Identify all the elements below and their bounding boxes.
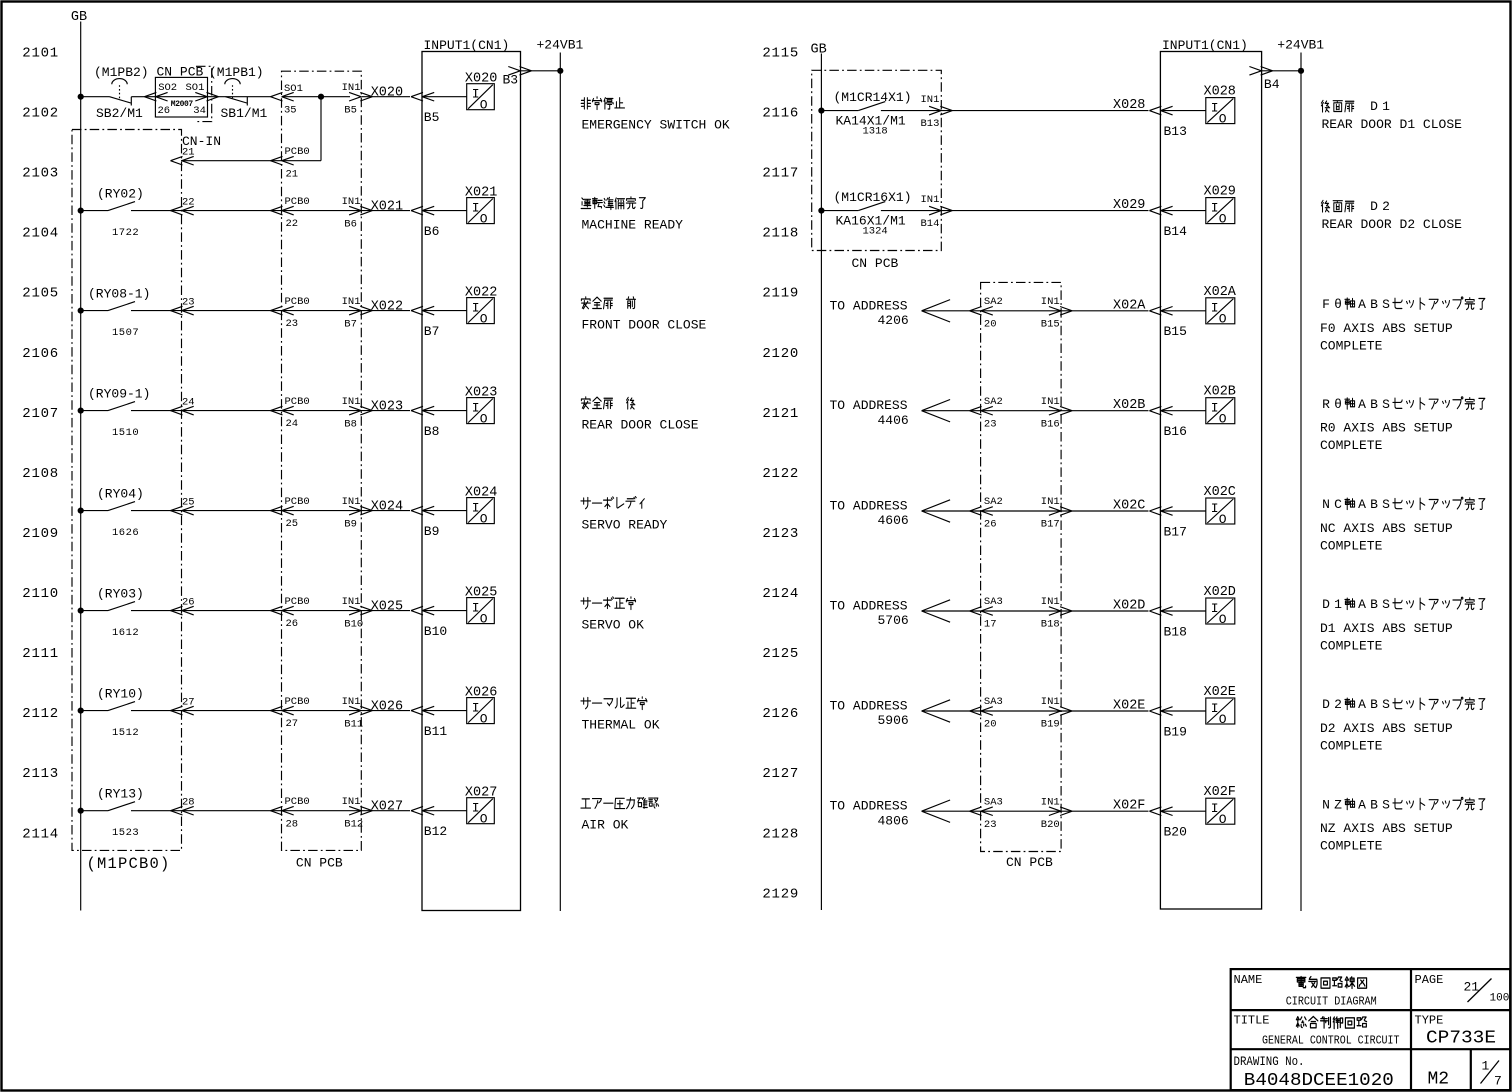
wire into I/O X024 bbox=[422, 510, 467, 512]
wire SB1 to SO1 boundary bbox=[219, 96, 271, 98]
connector IN1/B11 chevrons bbox=[349, 706, 372, 715]
connector SO1/35 chevrons at PCB boundary bbox=[271, 92, 294, 101]
wire rung X02D with arrow bbox=[922, 600, 1149, 622]
description label NC AXIS ABS SETUP (jp) bbox=[1322, 497, 1485, 512]
svg-text:I: I bbox=[472, 500, 480, 515]
svg-text:TITLE: TITLE bbox=[1234, 1013, 1270, 1027]
wire rung X021 to INPUT1 bbox=[131, 210, 410, 212]
svg-text:26: 26 bbox=[158, 105, 171, 117]
svg-text:TO ADDRESS: TO ADDRESS bbox=[830, 599, 908, 614]
wire into I/O X021 bbox=[422, 210, 467, 212]
connector IN1/B5 chevrons bbox=[349, 92, 372, 101]
svg-text:X025: X025 bbox=[371, 600, 403, 615]
description label MACHINE READY (jp) bbox=[581, 197, 645, 210]
switch SB2/M1 NC contact bbox=[110, 97, 132, 106]
svg-text:B8: B8 bbox=[424, 424, 440, 439]
svg-text:D: D bbox=[1370, 199, 1378, 214]
wire rung X022 to INPUT1 bbox=[131, 310, 410, 312]
svg-text:5706: 5706 bbox=[878, 613, 909, 628]
relay contact (RY10) bbox=[108, 702, 135, 711]
svg-text:O: O bbox=[1219, 111, 1227, 126]
connector SA3/17 chevrons bbox=[970, 607, 993, 616]
svg-text:B: B bbox=[1370, 497, 1378, 512]
connector INPUT1 B9 chevrons bbox=[411, 506, 434, 515]
svg-text:IN1: IN1 bbox=[342, 696, 361, 708]
svg-text:IN1: IN1 bbox=[342, 596, 361, 608]
svg-text:TO ADDRESS: TO ADDRESS bbox=[830, 398, 908, 413]
description label REAR DOOR D2 CLOSE (jp) bbox=[1321, 199, 1390, 214]
svg-text:IN1: IN1 bbox=[342, 82, 361, 94]
svg-text:2114: 2114 bbox=[22, 826, 59, 842]
svg-text:S: S bbox=[1382, 797, 1390, 812]
svg-text:X026: X026 bbox=[465, 686, 497, 701]
svg-text:1510: 1510 bbox=[112, 427, 139, 439]
relay contact (RY02) bbox=[108, 202, 135, 211]
description label F0 AXIS ABS SETUP (jp) bbox=[1322, 297, 1485, 312]
relay contact (RY09-1) bbox=[108, 402, 135, 411]
wire rung X02F with arrow bbox=[922, 800, 1149, 822]
node junction GB rung X020 bbox=[78, 94, 84, 100]
svg-text:X02B: X02B bbox=[1204, 385, 1236, 400]
svg-text:X02C: X02C bbox=[1204, 485, 1236, 500]
connector PCB0/21 chevrons bbox=[271, 156, 294, 165]
svg-text:IN1: IN1 bbox=[342, 296, 361, 308]
svg-text:AIR OK: AIR OK bbox=[582, 818, 629, 833]
svg-text:A: A bbox=[1358, 597, 1366, 612]
svg-text:5906: 5906 bbox=[878, 713, 909, 728]
svg-text:SB1/M1: SB1/M1 bbox=[221, 106, 268, 121]
svg-text:B8: B8 bbox=[344, 418, 357, 430]
svg-text:2117: 2117 bbox=[762, 166, 799, 182]
svg-text:B19: B19 bbox=[1041, 719, 1060, 731]
svg-text:I: I bbox=[1211, 801, 1219, 816]
svg-text:S: S bbox=[1382, 497, 1390, 512]
connector CN-IN pin 24 chevrons bbox=[171, 406, 194, 415]
svg-text:2116: 2116 bbox=[762, 106, 799, 122]
svg-text:A: A bbox=[1358, 397, 1366, 412]
svg-text:(RY08-1): (RY08-1) bbox=[88, 287, 150, 302]
svg-text:X023: X023 bbox=[465, 386, 497, 401]
svg-text:B14: B14 bbox=[1164, 224, 1188, 239]
svg-text:IN1: IN1 bbox=[342, 496, 361, 508]
svg-text:PCB0: PCB0 bbox=[285, 296, 310, 308]
svg-text:O: O bbox=[1219, 211, 1227, 226]
svg-text:21: 21 bbox=[182, 147, 195, 159]
svg-text:22: 22 bbox=[286, 218, 299, 230]
svg-text:S: S bbox=[1382, 397, 1390, 412]
svg-text:B12: B12 bbox=[424, 824, 447, 839]
svg-text:R0 AXIS ABS SETUP: R0 AXIS ABS SETUP bbox=[1320, 421, 1453, 436]
svg-text:B14: B14 bbox=[921, 218, 940, 230]
I/O input symbol X021 bbox=[467, 198, 495, 227]
svg-text:F: F bbox=[1322, 297, 1330, 312]
I/O input symbol X029 bbox=[1206, 198, 1235, 227]
svg-text:X024: X024 bbox=[371, 500, 403, 515]
svg-text:I: I bbox=[472, 700, 480, 715]
connector INPUT1 B7 chevrons bbox=[411, 306, 434, 315]
svg-text:CIRCUIT DIAGRAM: CIRCUIT DIAGRAM bbox=[1286, 994, 1377, 1008]
svg-text:B13: B13 bbox=[921, 118, 940, 130]
I/O input symbol X028 bbox=[1206, 98, 1235, 127]
svg-text:PCB0: PCB0 bbox=[285, 796, 310, 808]
svg-text:IN1: IN1 bbox=[1041, 496, 1060, 508]
connector IN1/B15 chevrons bbox=[1049, 307, 1072, 316]
wire SB2 to CN PCB box bbox=[131, 96, 143, 98]
svg-text:34: 34 bbox=[193, 105, 206, 117]
svg-text:X02F: X02F bbox=[1113, 799, 1145, 814]
connector boundary CN PCB dash-dot box (SA) bbox=[981, 282, 1062, 851]
svg-text:17: 17 bbox=[984, 619, 997, 631]
connector PCB0/28 chevrons bbox=[271, 806, 294, 815]
svg-text:X020: X020 bbox=[465, 72, 497, 87]
connector IN1/B9 chevrons bbox=[349, 506, 372, 515]
svg-text:B10: B10 bbox=[424, 624, 447, 639]
relay contact (RY04) bbox=[108, 502, 135, 511]
svg-text:(M1CR14X1): (M1CR14X1) bbox=[834, 90, 912, 105]
svg-text:A: A bbox=[1358, 497, 1366, 512]
connector PCB0/27 chevrons bbox=[271, 706, 294, 715]
connector B3 to +24VB1 bbox=[508, 67, 560, 76]
svg-text:B9: B9 bbox=[344, 518, 357, 530]
connector CN-IN pin 26 chevrons bbox=[171, 606, 194, 615]
svg-text:B17: B17 bbox=[1164, 524, 1187, 539]
svg-text:(M1PB2): (M1PB2) bbox=[94, 65, 149, 80]
svg-text:SA2: SA2 bbox=[984, 396, 1003, 408]
svg-text:1626: 1626 bbox=[112, 527, 139, 539]
svg-text:B13: B13 bbox=[1164, 124, 1187, 139]
svg-text:I: I bbox=[1211, 100, 1219, 115]
svg-text:SO1: SO1 bbox=[284, 83, 303, 95]
wire rung X025 to INPUT1 bbox=[131, 610, 410, 612]
svg-text:100: 100 bbox=[1490, 993, 1510, 1005]
connector PCB0/24 chevrons bbox=[271, 406, 294, 415]
svg-text:COMPLETE: COMPLETE bbox=[1320, 739, 1383, 754]
svg-text:(M1PCB0): (M1PCB0) bbox=[87, 855, 171, 873]
svg-text:B6: B6 bbox=[424, 224, 440, 239]
wire rung X020 left segment bbox=[81, 96, 110, 98]
wire branch vertical bbox=[320, 97, 322, 161]
svg-text:I: I bbox=[472, 87, 480, 102]
connector IN1/B14 chevrons bbox=[929, 206, 952, 215]
wire rung X021 left bbox=[81, 210, 108, 212]
svg-text:X027: X027 bbox=[371, 800, 403, 815]
svg-text:2101: 2101 bbox=[22, 45, 59, 61]
connector IN1/B20 chevrons bbox=[1049, 807, 1072, 816]
node junction rung X020 / CN-IN branch bbox=[318, 94, 324, 100]
svg-text:GENERAL CONTROL CIRCUIT: GENERAL CONTROL CIRCUIT bbox=[1262, 1033, 1400, 1047]
svg-text:O: O bbox=[480, 511, 488, 526]
relay contact (RY13) bbox=[108, 802, 135, 811]
svg-text:A: A bbox=[1358, 797, 1366, 812]
svg-text:M2: M2 bbox=[1428, 1070, 1450, 1090]
wire rung X02B with arrow bbox=[922, 400, 1149, 422]
svg-text:I: I bbox=[472, 400, 480, 415]
wire into I/O X020 bbox=[422, 96, 467, 98]
svg-text:(RY10): (RY10) bbox=[97, 687, 144, 702]
description label REAR DOOR D1 CLOSE (jp) bbox=[1321, 99, 1390, 114]
svg-text:(M1CR16X1): (M1CR16X1) bbox=[834, 190, 912, 205]
connector SA3/23 chevrons bbox=[970, 807, 993, 816]
svg-text:27: 27 bbox=[182, 697, 195, 709]
svg-text:I: I bbox=[1211, 301, 1219, 316]
wire into I/O X02E bbox=[1160, 710, 1205, 712]
svg-text:TO ADDRESS: TO ADDRESS bbox=[830, 699, 908, 714]
connector INPUT1 B15 chevrons bbox=[1149, 307, 1172, 316]
node junction GB rung X021 bbox=[78, 208, 84, 214]
svg-text:2108: 2108 bbox=[22, 466, 59, 482]
svg-text:X02F: X02F bbox=[1204, 785, 1236, 800]
title 電気回路線図 (jp) bbox=[1296, 977, 1366, 989]
svg-text:REAR DOOR D1 CLOSE: REAR DOOR D1 CLOSE bbox=[1322, 117, 1463, 132]
connector PCB0/26 chevrons bbox=[271, 606, 294, 615]
svg-text:25: 25 bbox=[182, 497, 195, 509]
svg-text:B17: B17 bbox=[1041, 519, 1060, 531]
connector SO1 chevrons (box right) bbox=[195, 92, 218, 101]
svg-text:SO1: SO1 bbox=[186, 82, 205, 94]
svg-text:23: 23 bbox=[286, 318, 299, 330]
svg-text:X029: X029 bbox=[1204, 185, 1236, 200]
description label THERMAL OK (jp) bbox=[581, 697, 647, 710]
svg-text:1612: 1612 bbox=[112, 627, 139, 639]
connector IN1/B7 chevrons bbox=[349, 306, 372, 315]
description label FRONT DOOR CLOSE (jp) bbox=[581, 297, 635, 309]
svg-text:CP733E: CP733E bbox=[1426, 1028, 1496, 1049]
svg-text:2118: 2118 bbox=[762, 226, 799, 242]
connector SA2/26 chevrons bbox=[970, 507, 993, 516]
svg-text:B: B bbox=[1370, 597, 1378, 612]
relay contact KA16X1/M1 bbox=[858, 202, 885, 211]
svg-text:O: O bbox=[1219, 412, 1227, 427]
connector INPUT1 B19 chevrons bbox=[1149, 707, 1172, 716]
svg-text:O: O bbox=[480, 411, 488, 426]
sheet slash bbox=[1481, 1061, 1500, 1084]
svg-text:1: 1 bbox=[1482, 1058, 1490, 1073]
wire into I/O X026 bbox=[422, 710, 467, 712]
wire SO1 to IN1 bbox=[282, 96, 351, 98]
svg-text:COMPLETE: COMPLETE bbox=[1320, 539, 1383, 554]
svg-text:PCB0: PCB0 bbox=[285, 146, 310, 158]
connector SA2/20 chevrons bbox=[970, 307, 993, 316]
wire rung X02A with arrow bbox=[922, 300, 1149, 322]
svg-text:23: 23 bbox=[984, 418, 997, 430]
svg-text:IN1: IN1 bbox=[1041, 696, 1060, 708]
svg-text:(RY09-1): (RY09-1) bbox=[88, 387, 150, 402]
svg-text:SO2: SO2 bbox=[158, 82, 177, 94]
connector SO2 chevrons bbox=[144, 92, 167, 101]
wire rung X02E with arrow bbox=[922, 700, 1149, 722]
svg-text:O: O bbox=[480, 611, 488, 626]
svg-text:35: 35 bbox=[284, 104, 297, 116]
connector IN1/B10 chevrons bbox=[349, 606, 372, 615]
svg-text:O: O bbox=[1219, 612, 1227, 627]
svg-text:IN1: IN1 bbox=[1041, 596, 1060, 608]
svg-text:SA2: SA2 bbox=[984, 296, 1003, 308]
svg-text:O: O bbox=[480, 711, 488, 726]
wire rung X022 left bbox=[81, 310, 108, 312]
wire GB bus (right) bbox=[820, 54, 822, 911]
svg-text:Z: Z bbox=[1334, 797, 1342, 812]
svg-text:X022: X022 bbox=[465, 286, 497, 301]
svg-text:REAR DOOR CLOSE: REAR DOOR CLOSE bbox=[582, 418, 699, 433]
svg-text:IN1: IN1 bbox=[921, 94, 940, 106]
svg-text:θ: θ bbox=[1334, 397, 1342, 412]
node junction GB rung X025 bbox=[78, 608, 84, 614]
svg-text:X02C: X02C bbox=[1113, 499, 1145, 514]
pushbutton actuator SB2 bbox=[112, 79, 127, 99]
connector IN1/B16 chevrons bbox=[1049, 406, 1072, 415]
connector box CN PCB (SO2/SO1) dash-dot outer bbox=[196, 66, 212, 121]
svg-text:28: 28 bbox=[182, 797, 195, 809]
wire into I/O X023 bbox=[422, 410, 467, 412]
module INPUT1(CN1) box (right) bbox=[1160, 52, 1261, 910]
svg-text:X029: X029 bbox=[1113, 198, 1145, 213]
svg-text:B5: B5 bbox=[344, 104, 357, 116]
connector box CN PCB (SO2/SO1) bbox=[155, 77, 207, 117]
svg-text:(RY03): (RY03) bbox=[97, 587, 144, 602]
I/O input symbol X02A bbox=[1206, 298, 1235, 327]
svg-text:1318: 1318 bbox=[863, 126, 888, 138]
svg-text:X02E: X02E bbox=[1113, 699, 1145, 714]
svg-text:SA3: SA3 bbox=[984, 696, 1003, 708]
svg-text:R: R bbox=[1322, 397, 1330, 412]
svg-text:1: 1 bbox=[1382, 99, 1390, 114]
node junction GB rung X022 bbox=[78, 308, 84, 314]
svg-text:TYPE: TYPE bbox=[1415, 1013, 1444, 1027]
svg-text:CN PCB: CN PCB bbox=[1006, 855, 1053, 870]
wire rung X029 left bbox=[821, 210, 858, 212]
description label D1 AXIS ABS SETUP (jp) bbox=[1322, 597, 1485, 612]
svg-text:PCB0: PCB0 bbox=[285, 596, 310, 608]
svg-text:N: N bbox=[1322, 497, 1330, 512]
svg-text:X023: X023 bbox=[371, 400, 403, 415]
svg-text:B20: B20 bbox=[1041, 819, 1060, 831]
connector IN1/B18 chevrons bbox=[1049, 607, 1072, 616]
svg-text:X02B: X02B bbox=[1113, 398, 1145, 413]
svg-text:B20: B20 bbox=[1164, 825, 1187, 840]
svg-text:I: I bbox=[1211, 401, 1219, 416]
I/O input symbol X02C bbox=[1206, 498, 1235, 527]
svg-text:D1 AXIS ABS SETUP: D1 AXIS ABS SETUP bbox=[1320, 621, 1453, 636]
svg-text:2124: 2124 bbox=[762, 586, 799, 602]
switch SB1/M1 NC contact bbox=[226, 97, 248, 106]
enclosure CN PCB dash-dot box (relays) bbox=[812, 70, 942, 250]
wire rung X026 to INPUT1 bbox=[131, 710, 410, 712]
svg-text:CN PCB: CN PCB bbox=[296, 856, 343, 871]
relay contact (RY08-1) bbox=[108, 302, 135, 311]
connector SA3/20 chevrons bbox=[970, 707, 993, 716]
power +24VB1 bus (left) bbox=[559, 53, 561, 912]
svg-text:1523: 1523 bbox=[112, 827, 139, 839]
svg-text:NAME: NAME bbox=[1234, 973, 1263, 987]
svg-text:PCB0: PCB0 bbox=[285, 396, 310, 408]
svg-text:IN1: IN1 bbox=[1041, 396, 1060, 408]
svg-text:1512: 1512 bbox=[112, 727, 139, 739]
svg-text:26: 26 bbox=[984, 519, 997, 531]
svg-text:X026: X026 bbox=[371, 700, 403, 715]
connector CN-IN pin 21 chevrons bbox=[171, 156, 194, 165]
svg-text:2122: 2122 bbox=[762, 466, 799, 482]
svg-text:25: 25 bbox=[286, 518, 299, 530]
module INPUT1(CN1) box (left) bbox=[422, 52, 521, 911]
svg-text:X025: X025 bbox=[465, 586, 497, 601]
svg-text:2104: 2104 bbox=[22, 226, 59, 242]
svg-text:4406: 4406 bbox=[878, 413, 909, 428]
svg-text:I: I bbox=[472, 300, 480, 315]
relay contact (RY03) bbox=[108, 602, 135, 611]
svg-text:2125: 2125 bbox=[762, 646, 799, 662]
svg-text:EMERGENCY SWITCH OK: EMERGENCY SWITCH OK bbox=[582, 118, 730, 133]
svg-text:2109: 2109 bbox=[22, 526, 59, 542]
wire IN1 to INPUT1 (X020) bbox=[361, 96, 410, 98]
svg-text:B11: B11 bbox=[424, 724, 448, 739]
svg-text:2110: 2110 bbox=[22, 586, 59, 602]
svg-text:B16: B16 bbox=[1164, 424, 1187, 439]
svg-text:B5: B5 bbox=[424, 110, 440, 125]
svg-text:TO ADDRESS: TO ADDRESS bbox=[830, 298, 908, 313]
svg-text:B: B bbox=[1370, 397, 1378, 412]
node junction on +24VB1 (right) bbox=[1298, 68, 1304, 74]
svg-text:IN1: IN1 bbox=[1041, 796, 1060, 808]
connector INPUT1 B14 chevrons bbox=[1149, 206, 1172, 215]
I/O input symbol X020 bbox=[467, 84, 495, 113]
svg-text:(M1PB1): (M1PB1) bbox=[209, 65, 264, 80]
wire into I/O X022 bbox=[422, 310, 467, 312]
svg-text:I: I bbox=[472, 200, 480, 215]
svg-text:NC AXIS ABS SETUP: NC AXIS ABS SETUP bbox=[1320, 521, 1453, 536]
connector INPUT1 B16 chevrons bbox=[1149, 406, 1172, 415]
connector INPUT1 B11 chevrons bbox=[411, 706, 434, 715]
wire into I/O X02F bbox=[1160, 810, 1205, 812]
power +24VB1 bus (right) bbox=[1300, 53, 1302, 912]
connector CN-IN pin 23 chevrons bbox=[171, 306, 194, 315]
svg-text:24: 24 bbox=[182, 397, 195, 409]
wire into I/O X028 bbox=[1160, 110, 1205, 112]
svg-text:B: B bbox=[1370, 697, 1378, 712]
svg-text:X024: X024 bbox=[465, 486, 497, 501]
svg-text:B9: B9 bbox=[424, 524, 440, 539]
wire rung X027 to INPUT1 bbox=[131, 810, 410, 812]
connector IN1/B19 chevrons bbox=[1049, 707, 1072, 716]
node junction GB rung X027 bbox=[78, 808, 84, 814]
wire into I/O X02D bbox=[1160, 610, 1205, 612]
svg-text:20: 20 bbox=[984, 319, 997, 331]
wire rung X02C with arrow bbox=[922, 500, 1149, 522]
connector INPUT1 B8 chevrons bbox=[411, 406, 434, 415]
svg-text:X028: X028 bbox=[1113, 98, 1145, 113]
svg-text:B15: B15 bbox=[1164, 324, 1187, 339]
svg-text:1722: 1722 bbox=[112, 227, 139, 239]
svg-text:THERMAL OK: THERMAL OK bbox=[582, 718, 660, 733]
svg-text:B15: B15 bbox=[1041, 319, 1060, 331]
svg-text:B19: B19 bbox=[1164, 724, 1187, 739]
pushbutton actuator SB1 bbox=[225, 79, 240, 99]
svg-text:O: O bbox=[480, 812, 488, 827]
svg-text:MACHINE READY: MACHINE READY bbox=[582, 218, 684, 233]
svg-text:2102: 2102 bbox=[22, 106, 59, 122]
wire rung X028 to INPUT1 bbox=[881, 110, 1149, 112]
description label D2 AXIS ABS SETUP (jp) bbox=[1322, 697, 1485, 712]
wire into I/O X027 bbox=[422, 810, 467, 812]
svg-text:B4: B4 bbox=[1264, 77, 1280, 92]
svg-text:2107: 2107 bbox=[22, 406, 59, 422]
svg-text:X027: X027 bbox=[465, 786, 497, 801]
svg-text:NZ AXIS ABS SETUP: NZ AXIS ABS SETUP bbox=[1320, 821, 1453, 836]
svg-text:26: 26 bbox=[286, 618, 299, 630]
wire rung X023 left bbox=[81, 410, 108, 412]
description label AIR OK (jp) bbox=[581, 798, 659, 809]
svg-text:O: O bbox=[1219, 512, 1227, 527]
svg-text:GB: GB bbox=[71, 10, 87, 25]
